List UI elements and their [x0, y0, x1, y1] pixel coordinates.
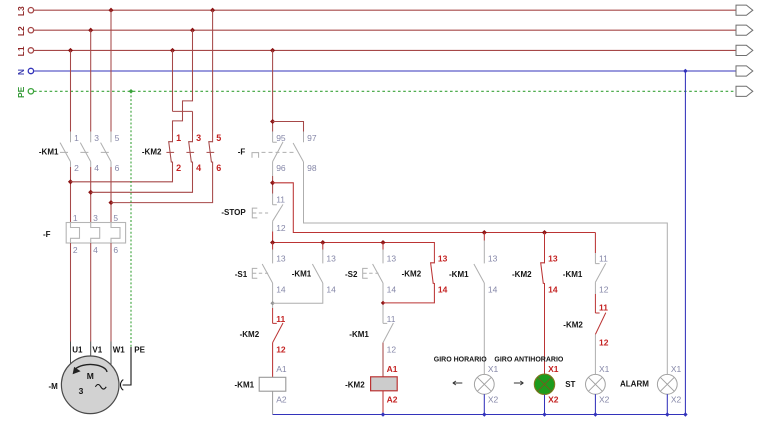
- STOP top leg: [272, 194, 274, 205]
- F aux 95 top leg: [272, 132, 274, 143]
- svg-text:5: 5: [113, 213, 118, 223]
- wire bus stub S2: [382, 243, 384, 250]
- wire S1 to KM2 NC: [272, 283, 274, 308]
- svg-text:12: 12: [276, 223, 286, 233]
- svg-text:14: 14: [276, 284, 286, 294]
- coil KM2: [371, 377, 398, 391]
- node KM1/KM2 pole 1: [68, 179, 73, 184]
- svg-text:2: 2: [74, 163, 79, 173]
- svg-text:X1: X1: [599, 364, 610, 374]
- node L1-KM2: [170, 48, 175, 53]
- wire feeder stub lamp1: [483, 233, 485, 241]
- svg-text:13: 13: [276, 254, 286, 264]
- node L2-KM1: [88, 28, 93, 33]
- KM1 mechanical link: [60, 151, 111, 153]
- svg-text:1: 1: [74, 133, 79, 143]
- node bus KM1 aux: [320, 240, 325, 245]
- overload relay F box: [66, 223, 125, 244]
- contact KM1 NC ST 11-12: [595, 263, 605, 282]
- svg-text:-KM1: -KM1: [39, 147, 59, 156]
- svg-text:12: 12: [276, 345, 286, 355]
- svg-text:-KM1: -KM1: [349, 330, 369, 339]
- wire lamp alarm to N bus: [666, 394, 668, 414]
- contactor KM1 main contact 3-4: [80, 143, 90, 162]
- svg-text:L1: L1: [16, 46, 26, 56]
- wire to lamp1: [483, 283, 485, 374]
- KM1 pole 3 bottom leg: [110, 162, 112, 167]
- contact KM1 NC interlock 11-12: [383, 323, 393, 343]
- S1 actuator: [252, 268, 257, 278]
- ST inter-contact leg red: [594, 294, 596, 313]
- lamp2 branch top leg: [544, 233, 546, 264]
- wire U1 terminal stub: [70, 342, 72, 364]
- wire F to motor W1: [110, 243, 112, 342]
- wire KM2 pole3 output: [111, 162, 213, 203]
- wire rail N: [34, 70, 736, 72]
- contactor KM2 main contact 5-6: [209, 142, 213, 162]
- svg-text:14: 14: [438, 284, 448, 294]
- ST inter-contact leg gray: [594, 282, 596, 294]
- lamp1 branch top leg: [483, 241, 485, 264]
- wire to lamp ST: [594, 334, 596, 374]
- node S2/KM2aux join: [381, 301, 385, 305]
- node pre-stop branch: [270, 180, 275, 185]
- svg-text:3: 3: [93, 213, 98, 223]
- ST branch feeder leg: [594, 233, 596, 254]
- svg-text:13: 13: [387, 254, 397, 264]
- svg-text:13: 13: [438, 254, 448, 264]
- svg-text:1: 1: [176, 133, 181, 143]
- svg-text:-STOP: -STOP: [221, 208, 246, 217]
- svg-text:13: 13: [488, 254, 498, 264]
- wire KM1 pole 3 to F: [110, 167, 112, 223]
- node bus S1: [270, 240, 275, 245]
- wire F to motor V1: [90, 243, 92, 342]
- wire KM2 pole2 output: [91, 162, 193, 193]
- KM1 pole 1 bottom leg: [70, 162, 72, 167]
- wire L3 to KM2 pole 3: [212, 10, 214, 131]
- wire pre-stop feeder line: [273, 183, 596, 233]
- node N bus lamp ST: [593, 412, 597, 416]
- svg-text:-KM2: -KM2: [240, 330, 260, 339]
- wire lamp1 to N bus: [483, 394, 485, 414]
- svg-text:-F: -F: [238, 147, 246, 156]
- wire F to motor U1: [70, 243, 72, 342]
- node L3-KM2: [210, 8, 215, 13]
- svg-text:X1: X1: [671, 364, 682, 374]
- svg-text:-KM2: -KM2: [142, 147, 162, 156]
- svg-text:11: 11: [276, 314, 285, 324]
- wire bus stub KM1 aux: [322, 243, 324, 250]
- contact KM1 aux NO lamp1: [474, 264, 484, 283]
- F aux trip symbol: [252, 153, 259, 158]
- svg-text:14: 14: [548, 284, 558, 294]
- S2 top leg: [382, 250, 384, 264]
- svg-text:12: 12: [599, 337, 609, 347]
- svg-text:N: N: [16, 69, 26, 75]
- svg-text:96: 96: [276, 163, 286, 173]
- svg-text:97: 97: [307, 133, 317, 143]
- STOP bottom leg: [272, 221, 274, 231]
- svg-text:X2: X2: [488, 394, 499, 404]
- lamp H1 giro horario: [474, 374, 494, 394]
- wire KM1 aux join: [273, 283, 323, 303]
- svg-text:-KM1: -KM1: [292, 270, 312, 279]
- contactor KM1 main contact 1-2: [60, 143, 70, 162]
- node PE-drop: [129, 89, 134, 94]
- contact KM2 aux NO lamp2: [541, 263, 545, 284]
- wire control bus: [273, 243, 435, 264]
- svg-text:-KM1: -KM1: [449, 270, 469, 279]
- wire to lamp2: [544, 283, 546, 374]
- F aux NO contact 97-98: [293, 143, 303, 162]
- arrow flag PE: [736, 86, 753, 96]
- terminal circle PE: [28, 89, 33, 94]
- KM1 NC top leg: [382, 313, 384, 323]
- svg-text:-KM2: -KM2: [512, 270, 532, 279]
- terminal circle L1: [28, 48, 33, 53]
- node L1-KM1: [68, 48, 73, 53]
- motor M1: [61, 356, 119, 414]
- contactor KM2 main contact 1-2: [169, 142, 173, 162]
- svg-text:11: 11: [387, 314, 396, 324]
- svg-text:PE: PE: [134, 346, 145, 355]
- arrow flag L2: [736, 25, 753, 35]
- svg-text:M: M: [87, 371, 94, 381]
- F aux 96 bottom leg: [272, 162, 274, 176]
- contact KM1 aux NO 13-14: [312, 264, 322, 283]
- svg-text:6: 6: [115, 163, 120, 173]
- svg-text:-KM1: -KM1: [563, 270, 583, 279]
- wire L1 to KM2 pole 2: [192, 111, 194, 131]
- svg-text:2: 2: [176, 163, 181, 173]
- wire KM2 aux join: [383, 283, 434, 303]
- KM1 pole 1 top leg: [70, 132, 72, 143]
- svg-text:1: 1: [73, 213, 78, 223]
- wire lamp ST to N bus: [594, 394, 596, 414]
- svg-text:A1: A1: [387, 364, 398, 374]
- arrow left: [453, 381, 463, 385]
- F heater element pole 2: [91, 223, 100, 244]
- wire to coil KM1: [272, 343, 274, 378]
- KM2 pole 2 top leg: [192, 132, 194, 143]
- S1 top leg: [272, 250, 274, 264]
- svg-text:-KM2: -KM2: [402, 270, 422, 279]
- arrow flag L1: [736, 45, 753, 55]
- wire to F contact 97: [273, 122, 304, 132]
- svg-text:3: 3: [79, 386, 84, 396]
- pushbutton S1 NO contact: [262, 264, 272, 283]
- svg-text:13: 13: [326, 254, 336, 264]
- node L1-control: [270, 48, 275, 53]
- wire STOP to bus: [272, 232, 274, 243]
- node KM1/KM2 pole 3: [108, 200, 113, 205]
- wire W1 terminal stub: [110, 342, 112, 365]
- svg-text:A1: A1: [276, 364, 287, 374]
- svg-text:-KM2: -KM2: [563, 320, 583, 329]
- node feeder lamp1: [482, 230, 487, 235]
- F heater element pole 3: [111, 223, 120, 244]
- node N-drop: [683, 69, 688, 74]
- svg-text:3: 3: [196, 133, 201, 143]
- motor arrow head: [73, 367, 81, 374]
- node bus S2: [380, 240, 385, 245]
- KM2 link dash pole 3: [207, 151, 215, 153]
- F aux 97 top leg: [303, 132, 305, 143]
- svg-text:14: 14: [488, 284, 498, 294]
- node S1/KM1aux join: [270, 301, 274, 305]
- svg-text:-S2: -S2: [345, 270, 358, 279]
- svg-text:13: 13: [548, 254, 558, 264]
- wire rail L3: [34, 9, 736, 11]
- wire 96 to STOP: [272, 176, 274, 194]
- S2 actuator: [363, 268, 368, 278]
- node N bus KM2 coil: [381, 412, 385, 416]
- motor tilde: [95, 385, 106, 390]
- svg-text:L3: L3: [16, 6, 26, 16]
- lamp H2 giro antihorario (green): [534, 374, 554, 394]
- svg-text:14: 14: [326, 284, 336, 294]
- svg-text:4: 4: [196, 163, 201, 173]
- terminal circle L3: [28, 8, 33, 13]
- svg-text:4: 4: [94, 163, 99, 173]
- wire lamp2 to N bus: [544, 395, 546, 415]
- svg-text:X1: X1: [548, 364, 559, 374]
- node feeder lamp2: [542, 230, 547, 235]
- node F aux branch: [270, 119, 275, 124]
- node KM1/KM2 pole 2: [88, 190, 93, 195]
- svg-text:A2: A2: [387, 395, 398, 405]
- node L2-KM2: [190, 28, 195, 33]
- KM2 pole 1 top leg: [172, 132, 174, 143]
- wire PE drop: [130, 91, 132, 347]
- wire coil KM2 to N bus: [382, 391, 384, 415]
- ST KM1 NC top leg: [594, 253, 596, 264]
- KM2 pole 3 top leg: [212, 132, 214, 143]
- KM1 pole 2 top leg: [90, 132, 92, 143]
- wire to coil KM2: [382, 343, 384, 377]
- KM2 link dash pole 1: [166, 151, 174, 153]
- svg-text:5: 5: [216, 133, 221, 143]
- svg-text:12: 12: [387, 345, 397, 355]
- svg-text:L2: L2: [16, 26, 26, 36]
- arrow flag L3: [736, 5, 753, 15]
- contactor KM1 main contact 5-6: [101, 143, 111, 162]
- svg-text:ST: ST: [565, 380, 575, 389]
- svg-text:W1: W1: [113, 346, 126, 355]
- KM2 link dash pole 2: [186, 151, 194, 153]
- wire L2 to KM1 pole 2: [90, 30, 92, 131]
- svg-text:2: 2: [73, 245, 78, 255]
- wire V1 terminal stub: [90, 342, 92, 357]
- motor rotation arrow arc: [76, 364, 108, 372]
- lamp H4 alarm: [657, 374, 677, 394]
- KM1 pole 3 top leg: [110, 132, 112, 143]
- contact KM2 NC ST 11-12: [595, 313, 605, 335]
- lamp H3 ST: [586, 374, 606, 394]
- wire bus stub S1: [272, 243, 274, 250]
- svg-text:11: 11: [276, 195, 285, 205]
- KM2 NC top leg: [272, 308, 274, 323]
- svg-text:11: 11: [599, 303, 608, 313]
- contact KM2 NC interlock 11-12: [273, 323, 283, 343]
- svg-text:U1: U1: [72, 346, 83, 355]
- wire L1 drop to crossover: [172, 50, 174, 111]
- wire L2 jog to KM2 pole 1: [173, 30, 193, 131]
- svg-text:V1: V1: [92, 346, 102, 355]
- node L3-KM1: [108, 8, 113, 13]
- svg-text:GIRO ANTIHORARIO: GIRO ANTIHORARIO: [494, 356, 564, 363]
- F aux NC contact 95-96: [273, 142, 283, 162]
- STOP actuator: [252, 208, 257, 218]
- KM1 pole 2 bottom leg: [90, 162, 92, 167]
- svg-text:6: 6: [113, 245, 118, 255]
- svg-text:-F: -F: [43, 230, 51, 239]
- wire rail L2: [34, 29, 736, 31]
- svg-text:5: 5: [115, 133, 120, 143]
- svg-text:14: 14: [387, 284, 397, 294]
- svg-text:X2: X2: [548, 394, 559, 404]
- node N bus corner: [683, 412, 687, 416]
- contactor KM2 main contact 3-4: [189, 142, 193, 162]
- wire N bus: [273, 71, 686, 415]
- svg-text:3: 3: [94, 133, 99, 143]
- wire L3 to KM1 pole 3: [110, 10, 112, 131]
- svg-text:11: 11: [599, 254, 608, 264]
- KM1 aux top leg: [322, 250, 324, 264]
- svg-text:GIRO HORARIO: GIRO HORARIO: [434, 356, 487, 363]
- svg-text:98: 98: [307, 163, 317, 173]
- wire L1 to F aux: [272, 50, 274, 131]
- wire rail L1: [34, 49, 736, 51]
- terminal circle L2: [28, 28, 33, 33]
- coil KM1: [259, 377, 286, 391]
- wire crossover L1 horizontal: [173, 110, 193, 112]
- svg-text:ALARM: ALARM: [620, 380, 649, 389]
- svg-text:A2: A2: [276, 395, 287, 405]
- svg-text:PE: PE: [16, 86, 26, 98]
- F aux mechanical link: [262, 151, 297, 153]
- motor PE clamp arc: [120, 380, 123, 391]
- terminal circle N: [28, 68, 33, 73]
- arrow flag N: [736, 66, 753, 76]
- wire L1 to KM1 pole 1: [70, 50, 72, 131]
- svg-text:4: 4: [93, 245, 98, 255]
- wire coil KM1 to N bus: [272, 391, 274, 414]
- svg-text:6: 6: [216, 163, 221, 173]
- wire KM1 pole 2 to F: [90, 167, 92, 223]
- svg-text:12: 12: [599, 284, 609, 294]
- node N bus alarm: [665, 412, 669, 416]
- node N bus lamp1: [482, 412, 486, 416]
- pushbutton S2 NO contact: [373, 264, 383, 283]
- arrow right: [514, 381, 524, 385]
- wire 98 to alarm lamp: [304, 162, 668, 375]
- pushbutton STOP NC contact: [273, 204, 283, 221]
- node N bus lamp2: [542, 412, 546, 416]
- svg-text:-S1: -S1: [235, 270, 248, 279]
- svg-text:-KM1: -KM1: [235, 380, 255, 389]
- svg-text:95: 95: [276, 133, 286, 143]
- svg-text:-KM2: -KM2: [345, 380, 365, 389]
- svg-text:X2: X2: [671, 394, 682, 404]
- wire PE to motor frame: [123, 347, 131, 385]
- F heater element pole 1: [71, 223, 80, 244]
- svg-text:-M: -M: [49, 382, 59, 391]
- contact KM2 aux NO 13-14: [431, 263, 435, 284]
- wire rail PE: [34, 90, 736, 92]
- svg-text:X2: X2: [599, 394, 610, 404]
- wire KM2 pole1 output: [71, 162, 173, 182]
- svg-text:X1: X1: [488, 364, 499, 374]
- wire KM1 pole 1 to F: [70, 167, 72, 223]
- wire S2 to KM1 NC: [382, 283, 384, 314]
